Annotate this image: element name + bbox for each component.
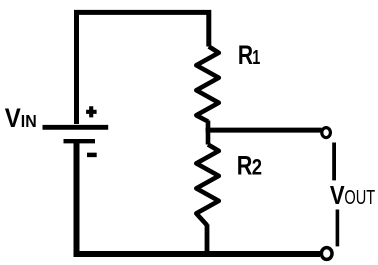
resistor R1 (zigzag body) [196, 47, 219, 122]
svg-text:1: 1 [252, 46, 260, 69]
wire: R1 bottom lead to middle node [206, 121, 211, 131]
node: Vout top terminal (open circle) [322, 128, 331, 138]
battery plate: long positive plate [43, 125, 109, 130]
svg-text:V: V [330, 182, 345, 211]
svg-text:2: 2 [252, 156, 262, 180]
svg-text:V: V [5, 104, 21, 134]
node: Vout bottom terminal (open circle) [321, 248, 332, 260]
svg-text:R: R [237, 151, 253, 181]
wire: right link upper segment (top terminal to Vout label) [332, 143, 336, 181]
battery V1: negative terminal wire down and bottom rail across to Vout bottom terminal [77, 142, 321, 254]
resistor R2 (zigzag body) [196, 145, 219, 226]
wire: R2 bottom lead down to bottom rail [205, 224, 210, 253]
svg-text:IN: IN [21, 112, 37, 132]
battery plate: short negative plate [64, 139, 96, 143]
wire: R2 top lead from middle node [206, 128, 211, 145]
wire: right link lower segment (Vout label to bottom terminal) [336, 210, 340, 247]
wire: top rail from battery + terminal up and across to R1 top lead [77, 12, 209, 124]
battery polarity mark: minus sign [87, 153, 97, 158]
wire: middle node horizontal to Vout top terminal [206, 128, 322, 133]
battery polarity mark: plus sign [86, 106, 97, 117]
svg-text:R: R [238, 41, 253, 71]
svg-text:OUT: OUT [344, 186, 375, 209]
